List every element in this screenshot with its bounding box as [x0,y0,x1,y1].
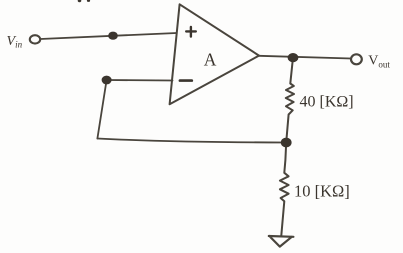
svg-text:A: A [204,49,217,69]
wire Vin to op-amp + input [41,33,177,39]
svg-text:Vout: Vout [368,53,390,69]
node feedback junction B [281,138,292,148]
node output [288,53,299,62]
node on Vin wire [108,32,118,40]
op-amp - input marker [180,79,192,82]
svg-text:Vin: Vin [7,34,23,50]
node inverting input [102,76,112,85]
wire feedback bottom [97,139,286,143]
wire output [259,56,351,59]
wire feedback left vertical [97,80,106,139]
terminal Vin [30,35,40,43]
wire output node to R1 and resistor R1 40k zigzag [286,58,294,143]
stray mark top right [87,0,90,2]
svg-text:10 [KΩ]: 10 [KΩ] [294,182,350,201]
ground [269,236,294,247]
wire op-amp - input [107,79,173,82]
stray mark top left [78,0,82,2]
wire node B to R2 and resistor R2 10k zigzag and wire to ground [280,143,289,236]
terminal Vout [351,54,362,64]
svg-text:40 [KΩ]: 40 [KΩ] [300,94,354,111]
op-amp + input marker [186,27,196,37]
op-amp U1 [170,4,259,104]
